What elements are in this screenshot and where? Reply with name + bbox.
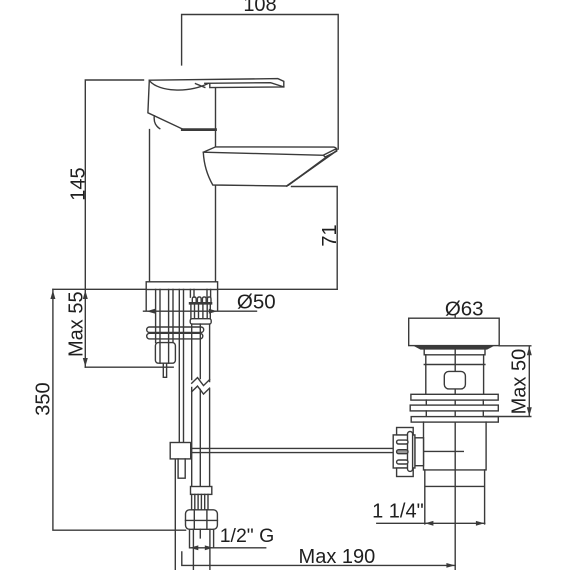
dim 1 1/4 bbox=[377, 522, 485, 524]
tailpiece bbox=[425, 470, 485, 524]
svg-text:1/2" G: 1/2" G bbox=[220, 525, 275, 547]
clamp block bbox=[170, 443, 191, 459]
dim Max 190 bbox=[182, 552, 455, 565]
arrow Max55 top bbox=[83, 290, 88, 299]
thread crowns bbox=[192, 297, 196, 303]
hose fitting below deck bbox=[190, 290, 210, 298]
stud tip bbox=[163, 363, 166, 377]
svg-text:1 1/4": 1 1/4" bbox=[372, 501, 424, 523]
dark band bbox=[190, 302, 211, 305]
svg-text:108: 108 bbox=[243, 0, 276, 16]
lower flange bbox=[191, 487, 212, 495]
mounting nut bbox=[155, 343, 175, 364]
Max55 bottom ext bbox=[85, 366, 173, 368]
svg-text:71: 71 bbox=[319, 224, 341, 246]
svg-text:Max 190: Max 190 bbox=[299, 546, 376, 568]
dim O50 bbox=[144, 290, 257, 311]
tube below nut bbox=[193, 529, 210, 570]
threads 2 bbox=[192, 494, 208, 509]
stud tube bbox=[156, 290, 173, 363]
horizontal rod to drain bbox=[191, 448, 464, 452]
svg-text:350: 350 bbox=[33, 382, 55, 415]
drain centerline bbox=[454, 316, 456, 570]
arrow 350 top bbox=[50, 290, 55, 299]
dim 1/2 G bbox=[190, 530, 266, 548]
dim 145 / Max 55 line bbox=[85, 80, 143, 367]
dim 108 line bbox=[182, 15, 339, 150]
svg-text:Max 55: Max 55 bbox=[66, 291, 88, 357]
break symbol bbox=[192, 378, 210, 386]
handle dome arc bbox=[150, 81, 208, 90]
neck walls + shoulder bbox=[424, 355, 485, 395]
long thin line below clamp bbox=[174, 459, 176, 570]
body top thick line bbox=[182, 128, 215, 131]
base plate bbox=[146, 282, 217, 290]
gear clamp bbox=[393, 435, 415, 468]
square hole bbox=[444, 371, 465, 389]
spout bbox=[203, 147, 336, 186]
deck line bbox=[53, 288, 337, 290]
hose upper bbox=[192, 324, 210, 381]
faucet lever bbox=[149, 79, 283, 88]
lift rod bbox=[179, 290, 183, 443]
svg-text:Max 50: Max 50 bbox=[509, 349, 531, 415]
svg-text:Ø50: Ø50 bbox=[237, 291, 276, 314]
connector bbox=[415, 438, 424, 466]
svg-text:145: 145 bbox=[67, 167, 89, 200]
lip bbox=[424, 350, 485, 355]
dim 350 line bbox=[53, 290, 186, 531]
svg-text:Ø63: Ø63 bbox=[445, 297, 484, 320]
hose lower bbox=[192, 388, 210, 487]
hex nut bbox=[186, 510, 218, 530]
arrow Max55 bottom bbox=[83, 358, 88, 367]
slot bars bbox=[411, 394, 498, 400]
flange under band bbox=[413, 346, 495, 350]
dim 71 line bbox=[292, 187, 338, 290]
lower body bbox=[424, 422, 487, 470]
body sides bbox=[150, 89, 216, 282]
collar bbox=[190, 319, 211, 324]
washer bars bbox=[147, 327, 204, 332]
threads bbox=[191, 304, 210, 318]
rod tip below clamp bbox=[178, 459, 185, 478]
drain flange bbox=[409, 318, 500, 345]
dim Max 50 bbox=[485, 346, 531, 417]
handle cap bbox=[148, 80, 182, 129]
